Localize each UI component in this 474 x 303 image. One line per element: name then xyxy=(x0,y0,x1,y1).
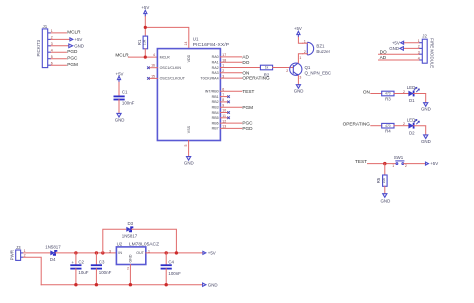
power +5V (J2 pin1) xyxy=(392,40,404,45)
svg-text:FIRE MODULE: FIRE MODULE xyxy=(430,38,435,68)
svg-text:GND: GND xyxy=(421,107,431,112)
LED D2 xyxy=(403,117,419,135)
power +5V (U2 output) xyxy=(203,251,216,256)
pin RB4 no-connect xyxy=(220,111,230,114)
svg-text:RB6: RB6 xyxy=(212,121,219,125)
svg-text:PGM: PGM xyxy=(242,105,253,110)
svg-text:SW1: SW1 xyxy=(394,155,404,160)
svg-text:R4: R4 xyxy=(385,129,391,134)
switch SW1 xyxy=(392,155,407,168)
wire J2 pin3 xyxy=(379,53,419,55)
svg-text:PGM: PGM xyxy=(67,62,78,67)
buzzer BZ1 xyxy=(303,39,331,55)
wire Q1 emitter to ground xyxy=(297,76,299,85)
svg-text:OUT: OUT xyxy=(136,251,144,255)
svg-text:GND: GND xyxy=(128,254,132,262)
pin OSC1 no-connect xyxy=(147,66,157,69)
wire J1 pin4 xyxy=(51,51,66,53)
wire MCLR into U1 xyxy=(128,56,157,58)
svg-text:14: 14 xyxy=(184,42,188,46)
svg-text:AD: AD xyxy=(242,55,249,60)
svg-text:2: 2 xyxy=(403,122,405,126)
svg-text:RA1: RA1 xyxy=(212,61,219,65)
svg-text:C2: C2 xyxy=(78,260,84,265)
wire SW1 to +5V xyxy=(404,163,426,165)
svg-text:MCLR: MCLR xyxy=(115,53,129,58)
junction MCLR/R1 xyxy=(144,56,147,59)
svg-text:VDD: VDD xyxy=(187,54,191,62)
svg-text:+5V: +5V xyxy=(392,40,400,45)
wire RA0 xyxy=(220,56,241,58)
svg-text:RB5: RB5 xyxy=(212,116,219,120)
svg-text:2: 2 xyxy=(286,69,288,73)
svg-text:U2: U2 xyxy=(117,242,123,247)
svg-text:GND: GND xyxy=(184,161,194,166)
wire R5 to ground xyxy=(384,186,386,193)
wire RB6 xyxy=(220,122,241,124)
svg-text:15: 15 xyxy=(151,74,155,78)
svg-text:PGD: PGD xyxy=(67,49,78,54)
connector J3 PWR xyxy=(9,245,25,260)
svg-text:OSC1/CLKIN: OSC1/CLKIN xyxy=(160,66,182,70)
svg-text:VSS: VSS xyxy=(187,125,191,133)
junction C2 top xyxy=(74,251,77,254)
svg-text:+5V: +5V xyxy=(294,26,302,31)
wire bottom GND rail xyxy=(41,284,202,286)
svg-text:PICKIT3: PICKIT3 xyxy=(36,39,41,56)
svg-text:RB7: RB7 xyxy=(212,127,219,131)
capacitor C3 xyxy=(91,253,112,285)
svg-text:2: 2 xyxy=(403,90,405,94)
svg-text:1: 1 xyxy=(392,164,394,168)
svg-text:GND: GND xyxy=(208,282,218,287)
svg-text:PIC16F84-XX/P: PIC16F84-XX/P xyxy=(193,42,229,48)
svg-text:GND: GND xyxy=(421,139,431,144)
wire U2 GND to bottom rail xyxy=(129,265,131,285)
svg-text:J2: J2 xyxy=(422,33,427,38)
svg-text:3: 3 xyxy=(109,249,111,253)
svg-text:Q_NPN_EBC: Q_NPN_EBC xyxy=(305,70,332,75)
wire RA4 xyxy=(220,77,241,79)
wire R3 to D1 xyxy=(394,93,408,95)
junction D3 output branch xyxy=(175,251,178,254)
svg-text:+: + xyxy=(71,260,74,265)
svg-text:GND: GND xyxy=(389,46,399,51)
svg-text:2: 2 xyxy=(304,50,306,54)
svg-text:ON: ON xyxy=(363,89,370,94)
svg-text:GND: GND xyxy=(74,43,84,48)
ground (D1) xyxy=(421,103,431,112)
wire J1 pin5 xyxy=(51,58,66,60)
capacitor C2 xyxy=(70,253,88,285)
regulator U2 LM78L05ACZ xyxy=(109,242,159,271)
capacitor C1 xyxy=(114,71,135,122)
junction C3 top xyxy=(95,251,98,254)
pin RB5 no-connect xyxy=(220,117,230,120)
svg-text:TEST: TEST xyxy=(355,159,367,164)
power +5V (SW1) xyxy=(426,161,439,166)
wire D4 to U2 IN xyxy=(56,252,117,254)
wire R1 to MCLR node xyxy=(144,49,146,57)
connector J1 PICKIT3 xyxy=(36,24,53,67)
junction C2 bottom xyxy=(74,283,77,286)
svg-text:RA0: RA0 xyxy=(212,55,219,59)
svg-text:10k: 10k xyxy=(143,39,147,45)
svg-text:RB3: RB3 xyxy=(212,106,219,110)
svg-text:T0CKI/RA4: T0CKI/RA4 xyxy=(200,76,218,80)
svg-text:+5V: +5V xyxy=(116,71,124,76)
ground (J2 pin2) xyxy=(389,46,403,51)
svg-text:BZ1: BZ1 xyxy=(316,43,325,48)
svg-text:16: 16 xyxy=(151,64,155,68)
ground (U1 VSS) xyxy=(184,157,194,166)
ground (R5) xyxy=(381,194,391,204)
svg-text:PWR: PWR xyxy=(9,250,14,260)
junction C4 top xyxy=(165,251,168,254)
svg-text:PGC: PGC xyxy=(242,121,253,126)
svg-text:DO: DO xyxy=(380,49,387,54)
pin RB1 no-connect xyxy=(220,95,230,98)
power +5V (top, feeds R1 and VDD) xyxy=(141,5,149,17)
ground (D2) xyxy=(421,135,431,144)
svg-text:100nF: 100nF xyxy=(122,100,135,105)
svg-text:2: 2 xyxy=(127,266,129,270)
wire J1 pin3 xyxy=(51,45,69,47)
svg-text:+5V: +5V xyxy=(74,37,82,42)
connector J2 FIRE MODULE xyxy=(418,33,435,68)
resistor R2 xyxy=(260,65,272,77)
wire Q1 collector to buzzer pin2 xyxy=(298,54,302,63)
svg-text:4: 4 xyxy=(153,53,155,57)
diode D4 1N5817 xyxy=(45,245,61,262)
svg-text:100nF: 100nF xyxy=(168,271,181,276)
svg-text:RB1: RB1 xyxy=(212,95,219,99)
wire OPERATING to R4 xyxy=(371,125,382,127)
svg-text:GND: GND xyxy=(294,89,304,94)
svg-text:Q1: Q1 xyxy=(305,65,311,70)
transistor Q1 Q_NPN_EBC xyxy=(286,56,331,80)
svg-text:PGC: PGC xyxy=(67,55,78,60)
svg-text:Buzzer: Buzzer xyxy=(316,49,330,54)
svg-text:PGD: PGD xyxy=(242,126,253,131)
svg-text:3: 3 xyxy=(299,76,301,80)
svg-text:RA2: RA2 xyxy=(212,66,219,70)
svg-text:RB4: RB4 xyxy=(212,111,219,115)
svg-text:OSC2/CLKOUT: OSC2/CLKOUT xyxy=(160,77,186,81)
pin RB2 no-connect xyxy=(220,101,230,104)
pin OSC2 no-connect xyxy=(147,77,157,80)
resistor R4 xyxy=(382,123,394,133)
wire RA3 xyxy=(220,72,241,74)
svg-text:D2: D2 xyxy=(409,130,415,135)
svg-text:J3: J3 xyxy=(16,245,21,250)
svg-text:GND: GND xyxy=(381,198,391,203)
svg-text:D4: D4 xyxy=(50,257,56,262)
svg-text:GND: GND xyxy=(115,117,125,122)
svg-text:1: 1 xyxy=(304,39,306,43)
svg-text:+5V: +5V xyxy=(430,161,438,166)
svg-text:LED: LED xyxy=(407,117,416,122)
svg-text:1: 1 xyxy=(299,56,301,60)
svg-text:D1: D1 xyxy=(409,98,415,103)
svg-text:TEST: TEST xyxy=(242,89,254,94)
svg-text:AD: AD xyxy=(380,55,387,60)
svg-text:R2: R2 xyxy=(264,72,270,77)
wire +5V to buzzer pin1 xyxy=(298,37,302,43)
wire R2 to Q1 base xyxy=(273,67,294,69)
svg-text:IN: IN xyxy=(118,251,122,255)
power +5V (buzzer) xyxy=(294,26,302,37)
wire TEST node to R5 xyxy=(384,164,386,175)
wire RA1 xyxy=(220,61,241,63)
wire D3 bypass branch xyxy=(103,229,126,253)
junction D3 input branch xyxy=(101,251,104,254)
svg-text:2: 2 xyxy=(405,164,407,168)
svg-text:C3: C3 xyxy=(99,260,105,265)
junction U2 GND bottom xyxy=(129,283,132,286)
wire J1 pin6 xyxy=(51,64,66,66)
svg-text:RB2: RB2 xyxy=(212,100,219,104)
wire VSS to ground xyxy=(188,141,190,157)
wire J1 pin1 xyxy=(51,32,66,34)
resistor R1 xyxy=(137,36,148,49)
ground (J1 pin3) xyxy=(69,43,84,48)
wire J3 pin1 to D4 xyxy=(23,252,50,254)
resistor R3 xyxy=(382,91,394,101)
wire R4 to D2 xyxy=(394,125,408,127)
ground (Q1 emitter) xyxy=(294,85,304,94)
svg-text:5: 5 xyxy=(184,145,188,147)
junction C4 bottom xyxy=(165,283,168,286)
ground (bottom rail) xyxy=(203,282,218,287)
svg-text:470: 470 xyxy=(385,124,391,128)
svg-text:ON: ON xyxy=(242,70,249,75)
svg-text:RA3: RA3 xyxy=(212,71,219,75)
capacitor C4 xyxy=(161,253,182,285)
svg-text:1k: 1k xyxy=(265,66,269,70)
svg-text:10k: 10k xyxy=(382,178,386,184)
IC U1 PIC16F84-XX/P xyxy=(151,37,229,147)
svg-text:C4: C4 xyxy=(168,260,174,265)
svg-text:INT/RB0: INT/RB0 xyxy=(205,90,219,94)
svg-text:MCLR: MCLR xyxy=(67,30,81,35)
svg-text:J1: J1 xyxy=(43,24,48,29)
svg-text:LM78L05ACZ: LM78L05ACZ xyxy=(129,242,159,248)
svg-text:1N5817: 1N5817 xyxy=(45,245,61,250)
wire VDD branch xyxy=(145,27,189,48)
svg-text:R5: R5 xyxy=(376,177,381,183)
svg-text:LED: LED xyxy=(407,85,416,90)
wire J2 pin2 xyxy=(403,47,419,49)
wire D3 to output rail xyxy=(132,229,177,253)
wire J2 pin1 xyxy=(404,42,419,44)
wire D1 to ground xyxy=(414,94,426,103)
svg-text:470: 470 xyxy=(385,92,391,96)
svg-text:+5V: +5V xyxy=(208,251,216,256)
LED D1 xyxy=(403,85,419,103)
resistor R5 xyxy=(376,175,387,186)
svg-text:MCLR: MCLR xyxy=(160,55,171,59)
svg-text:D3: D3 xyxy=(127,221,133,226)
svg-text:R1: R1 xyxy=(137,39,142,45)
wire RB3 xyxy=(220,106,241,108)
wire RB7 xyxy=(220,127,241,129)
wire D2 to ground xyxy=(414,126,426,135)
power +5V (J1 pin2) xyxy=(70,37,83,42)
svg-text:100nF: 100nF xyxy=(99,270,112,275)
junction C3 bottom xyxy=(95,283,98,286)
wire U2 OUT to +5V xyxy=(146,252,203,254)
svg-text:OPERATING: OPERATING xyxy=(343,122,371,127)
svg-text:1N5817: 1N5817 xyxy=(122,234,138,239)
svg-text:R3: R3 xyxy=(385,96,391,101)
wire ON to R3 xyxy=(371,93,382,95)
svg-text:DO: DO xyxy=(242,60,249,65)
wire +5V to R1 and VDD branch xyxy=(144,17,146,37)
svg-text:U1: U1 xyxy=(193,37,199,42)
svg-text:C1: C1 xyxy=(122,89,128,94)
svg-text:10uF: 10uF xyxy=(78,270,88,275)
wire J2 pin4 xyxy=(379,59,419,61)
wire RB0 xyxy=(220,90,241,92)
diode D3 1N5817 xyxy=(122,221,138,238)
junction TEST/R5 xyxy=(383,162,386,165)
wire TEST to SW1 xyxy=(368,163,396,165)
wire J1 pin2 xyxy=(51,38,70,40)
wire RA2 to R2 xyxy=(220,67,260,69)
wire J3 pin2 down xyxy=(23,257,41,285)
junction +5V branch xyxy=(144,26,147,29)
